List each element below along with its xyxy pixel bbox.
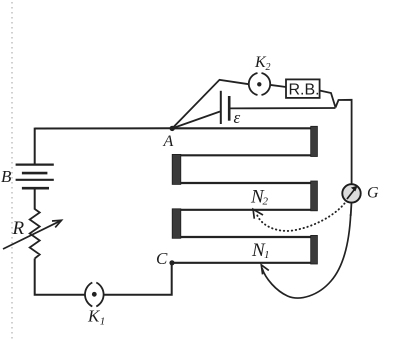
wire K1 to C riser bbox=[104, 265, 172, 295]
svg-text:A: A bbox=[163, 133, 174, 150]
label N2 bbox=[250, 187, 269, 208]
svg-text:C: C bbox=[156, 249, 168, 268]
potentiometer wire row 1 bbox=[172, 127, 311, 129]
jockey curve to N2 (dotted) bbox=[253, 204, 344, 231]
node A bbox=[163, 126, 175, 150]
wire cell to junction bbox=[229, 107, 335, 109]
wire A to cell bbox=[172, 112, 220, 129]
wire top-left horizontal bbox=[35, 127, 171, 129]
key K1 bbox=[85, 283, 105, 328]
battery B bbox=[1, 165, 54, 189]
wire A to K2 branch bbox=[172, 80, 248, 129]
svg-text:R.B.: R.B. bbox=[289, 82, 320, 99]
rheostat R bbox=[3, 209, 62, 259]
svg-text:G: G bbox=[367, 185, 379, 202]
potentiometer wire row 6 bbox=[172, 262, 311, 264]
potentiometer wire row 3 bbox=[181, 182, 311, 184]
svg-text:R: R bbox=[12, 218, 25, 239]
potentiometer wire row 5 bbox=[181, 236, 311, 238]
strip bar right 3 bbox=[311, 235, 318, 264]
potentiometer wire row 4 bbox=[181, 209, 311, 211]
resistance box R.B. bbox=[286, 79, 320, 98]
potentiometer wire row 2 bbox=[181, 154, 311, 156]
node C bbox=[156, 249, 175, 268]
svg-text:2: 2 bbox=[266, 62, 271, 73]
svg-text:2: 2 bbox=[263, 196, 269, 208]
strip bar left 2 bbox=[172, 209, 181, 239]
cell epsilon bbox=[221, 91, 241, 127]
wire battery to rheostat bbox=[34, 188, 36, 209]
svg-text:B: B bbox=[1, 167, 12, 186]
wire G bottom lead bbox=[350, 203, 353, 216]
svg-text:1: 1 bbox=[100, 316, 106, 328]
svg-text:1: 1 bbox=[264, 249, 270, 261]
svg-text:ε: ε bbox=[234, 108, 241, 127]
strip bar right 1 bbox=[311, 126, 318, 156]
jockey curve to N1 (solid) bbox=[261, 214, 350, 298]
wire K2 to R.B. bbox=[270, 85, 287, 87]
wire rheostat to bottom corner bbox=[35, 259, 85, 295]
wire junction to right vertical bbox=[336, 100, 352, 185]
wire R.B. to junction bbox=[320, 91, 336, 108]
label N1 bbox=[251, 240, 270, 261]
strip bar left 1 bbox=[172, 154, 181, 184]
key K2 bbox=[249, 54, 271, 95]
galvanometer G bbox=[342, 184, 379, 202]
wire left vertical to battery bbox=[34, 128, 36, 165]
strip bar right 2 bbox=[311, 181, 318, 211]
